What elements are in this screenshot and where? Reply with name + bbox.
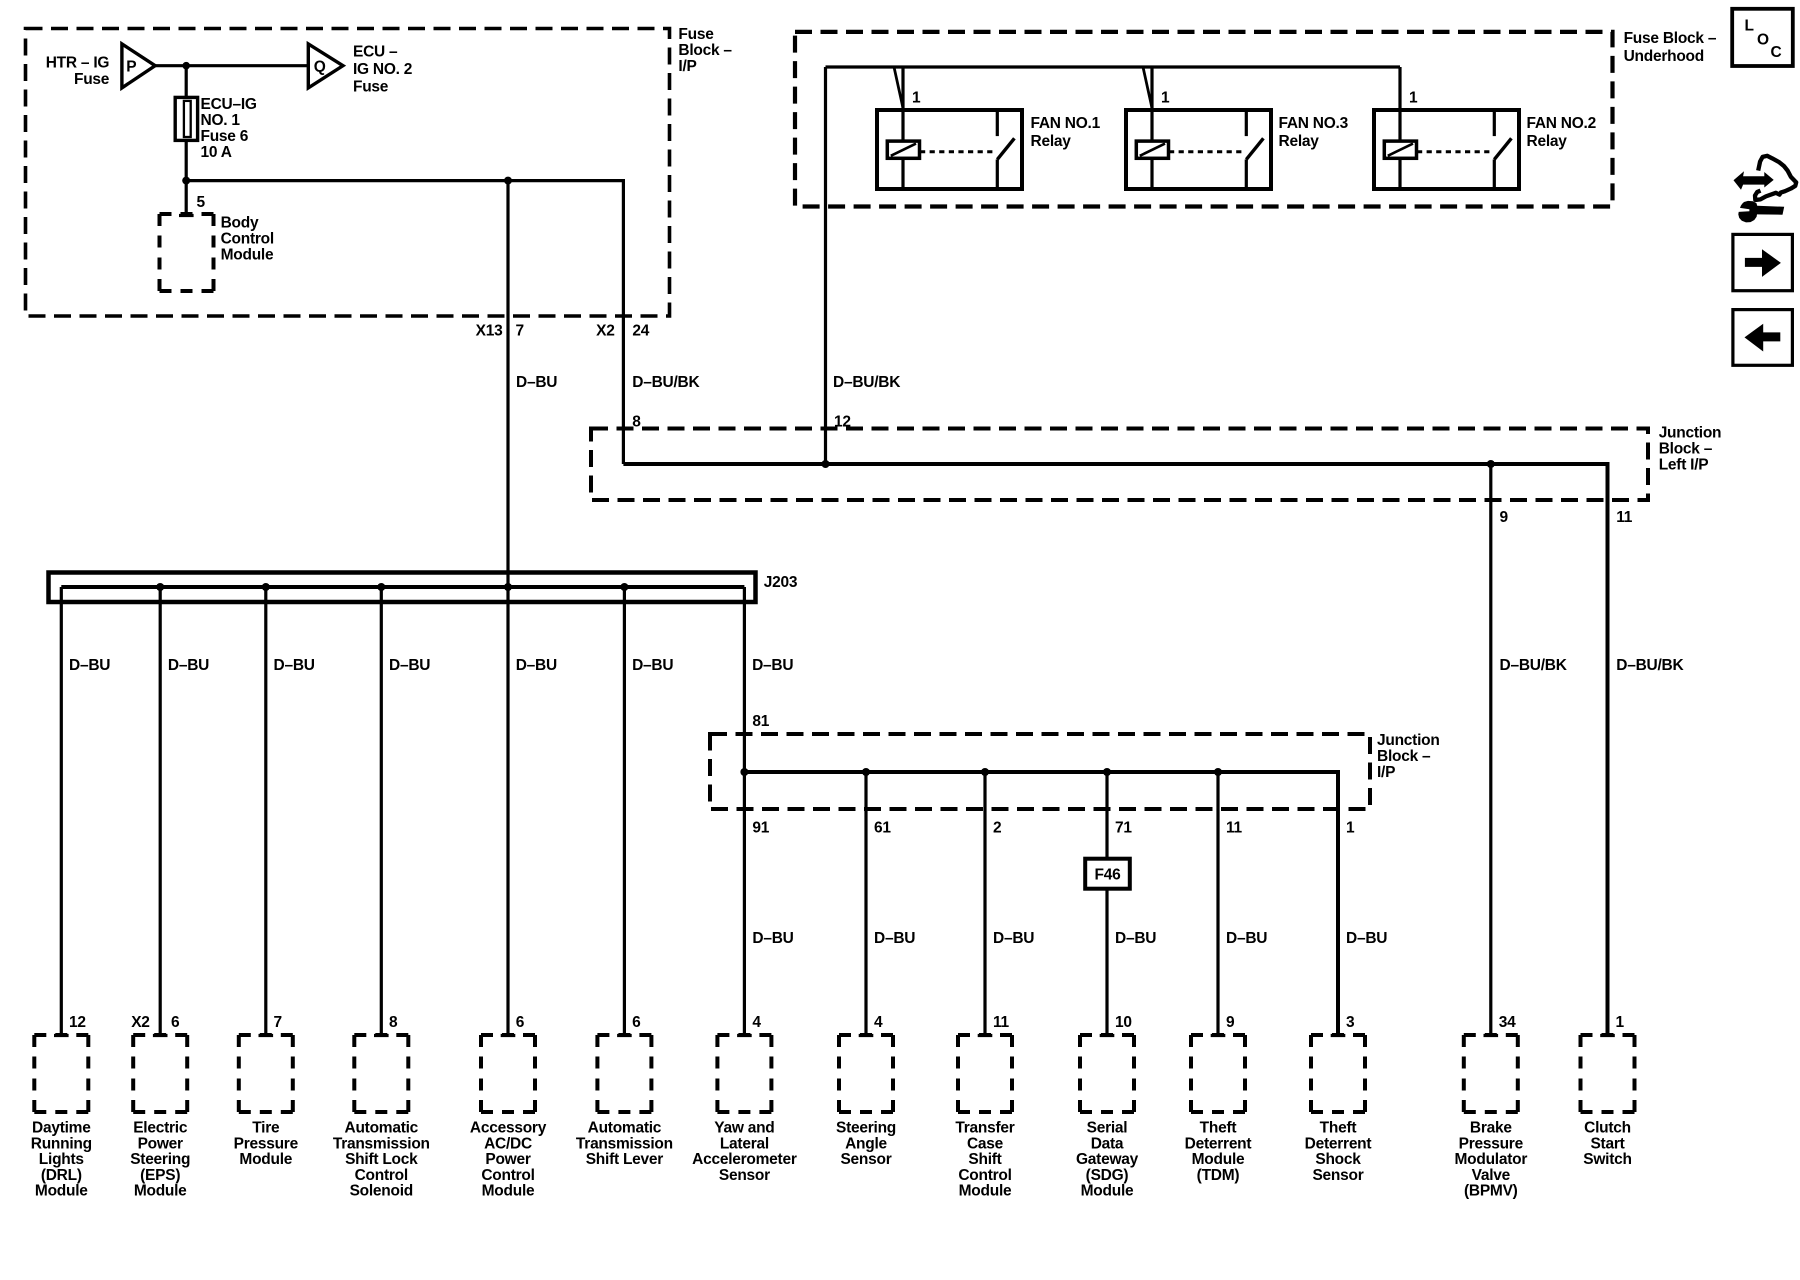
fuse block I/P enclosure xyxy=(26,29,670,317)
node J203 tap xyxy=(620,583,628,591)
Accessory module label xyxy=(470,1120,547,1200)
svg-text:Module: Module xyxy=(959,1183,1012,1200)
HTR-IG Fuse label xyxy=(46,55,110,89)
svg-text:Valve: Valve xyxy=(1472,1167,1511,1184)
svg-text:C: C xyxy=(1771,44,1782,61)
J203 internal bus xyxy=(61,585,744,589)
svg-text:Theft: Theft xyxy=(1320,1120,1357,1137)
svg-text:9: 9 xyxy=(1500,509,1509,526)
pin label X2 | 24 xyxy=(596,323,650,340)
Steering module label xyxy=(836,1120,896,1169)
connector Clutch Start Switch xyxy=(1581,1035,1635,1112)
svg-text:D–BU: D–BU xyxy=(1226,930,1267,947)
Serial module label xyxy=(1076,1120,1139,1200)
svg-text:Start: Start xyxy=(1590,1135,1624,1152)
svg-text:Left I/P: Left I/P xyxy=(1659,457,1709,474)
svg-text:Accelerometer: Accelerometer xyxy=(692,1151,797,1168)
connector Brake Pressure Modulator Valve (BPMV) xyxy=(1464,1035,1518,1112)
svg-text:IG NO. 2: IG NO. 2 xyxy=(353,61,412,78)
svg-text:Case: Case xyxy=(967,1135,1004,1152)
Clutch module label xyxy=(1583,1120,1631,1169)
svg-text:Transfer: Transfer xyxy=(955,1120,1014,1137)
wire F46 to SDG module xyxy=(1105,889,1108,1036)
svg-text:Transmission: Transmission xyxy=(576,1135,673,1152)
svg-text:X2: X2 xyxy=(596,323,614,340)
svg-text:(SDG): (SDG) xyxy=(1086,1167,1129,1184)
wire down to body control module pin 5 xyxy=(185,181,188,216)
node junction block I/P tap xyxy=(981,768,989,776)
svg-text:Automatic: Automatic xyxy=(345,1120,419,1137)
svg-text:Relay: Relay xyxy=(1031,133,1072,150)
svg-text:Control: Control xyxy=(481,1167,534,1184)
Electric module label xyxy=(130,1120,190,1200)
svg-text:Body: Body xyxy=(221,214,259,231)
wire fuse 6 to junction xyxy=(185,140,188,180)
svg-text:Modulator: Modulator xyxy=(1454,1151,1527,1168)
Daytime module label xyxy=(31,1120,92,1200)
svg-text:(TDM): (TDM) xyxy=(1197,1167,1240,1184)
diagnostic wrench icon xyxy=(1734,156,1797,223)
wire pin 9 (D-BU/BK) down to BPMV xyxy=(1489,464,1492,1036)
wire pin 1 fan no.2 relay xyxy=(1398,67,1401,110)
svg-text:Data: Data xyxy=(1091,1135,1124,1152)
svg-text:Pressure: Pressure xyxy=(1459,1135,1524,1152)
body control module label xyxy=(221,214,274,263)
svg-text:Block –: Block – xyxy=(1659,441,1713,458)
svg-text:3: 3 xyxy=(1346,1014,1355,1031)
svg-text:7: 7 xyxy=(516,323,524,340)
wire D-BU from J203 xyxy=(159,587,162,1036)
svg-text:Relay: Relay xyxy=(1527,133,1568,150)
Theft module label xyxy=(1305,1120,1372,1184)
Automatic module label xyxy=(333,1120,430,1200)
relay U2 FAN NO.3 xyxy=(1126,110,1271,189)
svg-text:I/P: I/P xyxy=(1377,764,1395,781)
svg-text:Sensor: Sensor xyxy=(840,1151,891,1168)
fuse block I/P label xyxy=(678,26,732,75)
svg-text:D–BU: D–BU xyxy=(516,374,557,391)
svg-text:F46: F46 xyxy=(1095,866,1122,883)
svg-text:Lights: Lights xyxy=(39,1151,84,1168)
svg-text:Shift Lock: Shift Lock xyxy=(345,1151,418,1168)
svg-text:Control: Control xyxy=(355,1167,408,1184)
svg-text:10 A: 10 A xyxy=(201,144,232,161)
wire X2-24 (D-BU/BK) down to junction block left I/P xyxy=(622,179,625,464)
svg-text:Fuse: Fuse xyxy=(678,26,714,43)
wire P to Q xyxy=(155,64,308,67)
Transfer module label xyxy=(955,1120,1014,1200)
fuse 6 label xyxy=(201,96,257,161)
connector Theft Deterrent Module (TDM) xyxy=(1191,1035,1245,1112)
svg-text:Junction: Junction xyxy=(1377,732,1440,749)
connector Tire Pressure Module xyxy=(239,1035,293,1112)
svg-text:Sensor: Sensor xyxy=(719,1167,770,1184)
svg-text:D–BU: D–BU xyxy=(752,657,793,674)
connector Yaw and Lateral Accelerometer Sensor xyxy=(717,1035,771,1112)
svg-text:J203: J203 xyxy=(764,574,798,591)
svg-text:Shift Lever: Shift Lever xyxy=(586,1151,664,1168)
junction block left I/P label xyxy=(1659,425,1722,474)
fuse block underhood label xyxy=(1624,30,1717,65)
fuse Q (ECU-IG NO.2 Fuse) triangle xyxy=(308,44,343,88)
fuse F46 xyxy=(1085,859,1130,889)
connector Daytime Running Lights (DRL) Module xyxy=(34,1035,88,1112)
svg-text:Electric: Electric xyxy=(133,1120,188,1137)
wire bus down-left leg (D-BU/BK 12) xyxy=(824,67,827,464)
node at BCM branch xyxy=(182,177,190,185)
connector Automatic Transmission Shift Lever xyxy=(597,1035,651,1112)
svg-text:81: 81 xyxy=(752,713,769,730)
connector Serial Data Gateway (SDG) Module xyxy=(1080,1035,1134,1112)
wire D-BU from J203 xyxy=(623,587,626,1036)
wire D-BU from J203 xyxy=(380,587,383,1036)
svg-text:Module: Module xyxy=(1192,1151,1245,1168)
svg-text:Module: Module xyxy=(239,1151,292,1168)
svg-text:71: 71 xyxy=(1115,819,1132,836)
node at X13 branch xyxy=(504,177,512,185)
svg-text:X2: X2 xyxy=(131,1014,149,1031)
svg-text:HTR – IG: HTR – IG xyxy=(46,55,110,72)
svg-text:X13: X13 xyxy=(476,323,503,340)
svg-text:11: 11 xyxy=(1616,509,1633,526)
svg-text:7: 7 xyxy=(274,1014,282,1031)
wire X13-7 (D-BU) down to J203 and Accessory ACDC connector xyxy=(506,181,509,1036)
svg-text:4: 4 xyxy=(874,1014,883,1031)
wire tap down to fuse 6 xyxy=(185,66,188,97)
svg-text:61: 61 xyxy=(874,819,891,836)
svg-text:D–BU: D–BU xyxy=(516,657,557,674)
svg-text:D–BU: D–BU xyxy=(874,930,915,947)
svg-text:D–BU: D–BU xyxy=(752,930,793,947)
Theft module label xyxy=(1185,1120,1252,1184)
svg-text:D–BU/BK: D–BU/BK xyxy=(632,374,700,391)
connector Theft Deterrent Shock Sensor xyxy=(1311,1035,1365,1112)
svg-text:Power: Power xyxy=(485,1151,530,1168)
junction block I/P label xyxy=(1377,732,1440,781)
junction block left I/P internal bus xyxy=(623,464,1607,1036)
svg-text:D–BU: D–BU xyxy=(168,657,209,674)
fuse ECU-IG NO.1 Fuse 6 10A symbol xyxy=(175,97,197,140)
svg-text:L: L xyxy=(1745,18,1754,35)
svg-text:(DRL): (DRL) xyxy=(41,1167,82,1184)
node bus/relay leg xyxy=(822,460,830,468)
Automatic module label xyxy=(576,1120,673,1169)
node junction block I/P tap xyxy=(1214,768,1222,776)
svg-text:Underhood: Underhood xyxy=(1624,48,1704,65)
svg-text:Fuse 6: Fuse 6 xyxy=(201,128,249,145)
splice pack J203 xyxy=(49,573,756,603)
svg-text:O: O xyxy=(1757,32,1769,49)
svg-text:1: 1 xyxy=(912,89,921,106)
svg-text:Deterrent: Deterrent xyxy=(1185,1135,1252,1152)
svg-text:11: 11 xyxy=(993,1014,1010,1031)
svg-text:P: P xyxy=(126,59,136,76)
svg-text:6: 6 xyxy=(516,1014,525,1031)
junction block left I/P enclosure xyxy=(591,429,1648,501)
wire to F46 xyxy=(1105,772,1108,859)
svg-text:D–BU: D–BU xyxy=(632,657,673,674)
node bus/BPMV leg xyxy=(1487,460,1495,468)
svg-text:AC/DC: AC/DC xyxy=(484,1135,532,1152)
wire pin 1 fan no.3 relay xyxy=(1150,67,1153,110)
node junction block I/P tap xyxy=(1103,768,1111,776)
node J203 tap xyxy=(262,583,270,591)
wire D-BU from J203 xyxy=(60,587,63,1036)
svg-text:Tire: Tire xyxy=(252,1120,280,1137)
svg-text:Theft: Theft xyxy=(1200,1120,1237,1137)
svg-text:FAN NO.1: FAN NO.1 xyxy=(1031,115,1101,132)
svg-text:Steering: Steering xyxy=(130,1151,190,1168)
LOC legend box xyxy=(1732,9,1793,66)
svg-text:24: 24 xyxy=(632,323,649,340)
svg-text:Daytime: Daytime xyxy=(32,1120,91,1137)
svg-text:D–BU/BK: D–BU/BK xyxy=(1616,657,1684,674)
ECU-IG NO.2 Fuse label xyxy=(353,44,412,96)
svg-text:D–BU: D–BU xyxy=(69,657,110,674)
svg-text:D–BU/BK: D–BU/BK xyxy=(1500,657,1568,674)
svg-text:Shock: Shock xyxy=(1315,1151,1361,1168)
svg-text:Module: Module xyxy=(1081,1183,1134,1200)
svg-text:Serial: Serial xyxy=(1087,1120,1128,1137)
svg-text:Fuse: Fuse xyxy=(74,71,110,88)
fuse block underhood enclosure xyxy=(795,32,1613,207)
wire pin 1 fan no.1 relay xyxy=(901,67,904,110)
svg-text:Sensor: Sensor xyxy=(1312,1167,1363,1184)
svg-text:1: 1 xyxy=(1346,819,1355,836)
wire D-BU from J203 to junction block I/P pin 81 and Yaw sensor xyxy=(743,587,746,1036)
svg-text:Module: Module xyxy=(134,1183,187,1200)
svg-text:Deterrent: Deterrent xyxy=(1305,1135,1372,1152)
svg-text:Control: Control xyxy=(221,230,274,247)
svg-text:Module: Module xyxy=(35,1183,88,1200)
svg-text:Clutch: Clutch xyxy=(1584,1120,1631,1137)
svg-text:Brake: Brake xyxy=(1470,1120,1512,1137)
svg-text:Control: Control xyxy=(958,1167,1011,1184)
body control module connector xyxy=(160,214,214,291)
svg-text:Relay: Relay xyxy=(1279,133,1320,150)
svg-text:(EPS): (EPS) xyxy=(140,1167,180,1184)
relay U1 FAN NO.1 xyxy=(877,110,1022,189)
svg-text:Shift: Shift xyxy=(968,1151,1001,1168)
wire junction to X2 corner xyxy=(186,179,623,182)
svg-text:6: 6 xyxy=(632,1014,641,1031)
connector Accessory AC/DC Power Control Module xyxy=(481,1035,535,1112)
node J203 tap xyxy=(377,583,385,591)
svg-text:Fuse Block –: Fuse Block – xyxy=(1624,30,1717,47)
svg-text:10: 10 xyxy=(1115,1014,1132,1031)
svg-text:8: 8 xyxy=(632,413,641,430)
connector Automatic Transmission Shift Lock Control Solenoid xyxy=(354,1035,408,1112)
wire D-BU from J203 xyxy=(264,587,267,1036)
svg-text:Switch: Switch xyxy=(1583,1151,1631,1168)
svg-text:2: 2 xyxy=(993,819,1001,836)
wire D-BU drop xyxy=(983,772,986,1036)
back arrow box xyxy=(1733,310,1793,366)
svg-text:Block –: Block – xyxy=(678,42,732,59)
svg-text:D–BU: D–BU xyxy=(1346,930,1387,947)
FAN NO.3 relay label xyxy=(1279,115,1349,150)
svg-text:NO. 1: NO. 1 xyxy=(201,112,241,129)
svg-text:Power: Power xyxy=(138,1135,183,1152)
wire D-BU drop xyxy=(864,772,867,1036)
svg-text:D–BU: D–BU xyxy=(1115,930,1156,947)
FAN NO.1 relay label xyxy=(1031,115,1101,150)
svg-text:Gateway: Gateway xyxy=(1076,1151,1139,1168)
FAN NO.2 relay label xyxy=(1527,115,1596,150)
node junction block I/P tap xyxy=(740,768,748,776)
svg-text:D–BU/BK: D–BU/BK xyxy=(833,374,901,391)
svg-text:(BPMV): (BPMV) xyxy=(1464,1183,1518,1200)
svg-text:D–BU: D–BU xyxy=(993,930,1034,947)
svg-text:D–BU: D–BU xyxy=(274,657,315,674)
svg-text:4: 4 xyxy=(752,1014,761,1031)
junction block I/P enclosure xyxy=(710,734,1370,809)
svg-text:Solenoid: Solenoid xyxy=(350,1183,413,1200)
svg-text:Accessory: Accessory xyxy=(470,1120,547,1137)
svg-text:Yaw and: Yaw and xyxy=(714,1120,774,1137)
wire relay feed bus xyxy=(826,65,1401,68)
node J203 tap xyxy=(504,583,512,591)
svg-text:ECU–IG: ECU–IG xyxy=(201,96,257,113)
svg-text:I/P: I/P xyxy=(678,58,696,75)
svg-text:Junction: Junction xyxy=(1659,425,1722,442)
svg-text:Lateral: Lateral xyxy=(720,1135,769,1152)
connector Electric Power Steering (EPS) Module xyxy=(133,1035,187,1112)
svg-text:11: 11 xyxy=(1226,819,1243,836)
svg-text:Pressure: Pressure xyxy=(234,1135,299,1152)
Yaw and module label xyxy=(692,1120,797,1184)
svg-text:Module: Module xyxy=(482,1183,535,1200)
pin label X13 | 7 xyxy=(476,323,524,340)
svg-text:9: 9 xyxy=(1226,1014,1235,1031)
svg-text:6: 6 xyxy=(171,1014,180,1031)
node J203 tap xyxy=(156,583,164,591)
forward arrow box xyxy=(1733,234,1793,290)
svg-text:12: 12 xyxy=(69,1014,86,1031)
svg-text:FAN NO.2: FAN NO.2 xyxy=(1527,115,1596,132)
svg-text:34: 34 xyxy=(1499,1014,1516,1031)
svg-text:1: 1 xyxy=(1616,1014,1625,1031)
relay U3 FAN NO.2 xyxy=(1374,110,1519,189)
svg-text:8: 8 xyxy=(389,1014,398,1031)
junction block I/P internal bus xyxy=(744,772,1338,1036)
wire D-BU drop xyxy=(1216,772,1219,1036)
svg-text:Automatic: Automatic xyxy=(588,1120,662,1137)
svg-text:Fuse: Fuse xyxy=(353,79,389,96)
svg-text:91: 91 xyxy=(752,819,769,836)
Brake module label xyxy=(1454,1120,1527,1200)
svg-text:D–BU: D–BU xyxy=(389,657,430,674)
svg-text:Angle: Angle xyxy=(845,1135,887,1152)
Tire module label xyxy=(234,1120,299,1169)
svg-text:Q: Q xyxy=(314,59,326,76)
svg-text:Steering: Steering xyxy=(836,1120,896,1137)
svg-text:1: 1 xyxy=(1409,89,1418,106)
svg-text:Block –: Block – xyxy=(1377,748,1431,765)
svg-text:FAN NO.3: FAN NO.3 xyxy=(1279,115,1349,132)
connector Transfer Case Shift Control Module xyxy=(958,1035,1012,1112)
svg-text:ECU –: ECU – xyxy=(353,44,398,61)
node at P-Q wire tap xyxy=(182,62,190,70)
svg-text:5: 5 xyxy=(197,194,206,211)
fuse P (HTR-IG Fuse) triangle xyxy=(122,44,155,88)
connector Steering Angle Sensor xyxy=(839,1035,893,1112)
svg-text:Module: Module xyxy=(221,246,274,263)
svg-text:1: 1 xyxy=(1161,89,1170,106)
node junction block I/P tap xyxy=(862,768,870,776)
svg-text:Transmission: Transmission xyxy=(333,1135,430,1152)
svg-text:Running: Running xyxy=(31,1135,92,1152)
